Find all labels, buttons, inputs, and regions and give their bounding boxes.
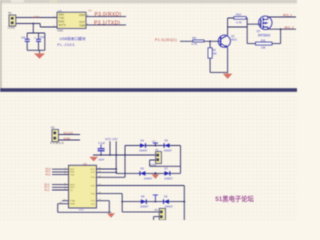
wire emitter (227, 48, 229, 73)
connector P2 (50, 126, 64, 146)
svg-text:CON2: CON2 (8, 26, 16, 30)
svg-text:XTAL: XTAL (70, 200, 76, 203)
wire mcu p14 (97, 194, 123, 212)
wire U1 right RXD (86, 24, 126, 26)
wire capacitor branch (27, 24, 45, 54)
resistor R9 (208, 48, 217, 58)
svg-text:1N4007: 1N4007 (144, 178, 153, 181)
wire mcu p13 drop (97, 201, 110, 213)
wire bridge1 conn pin2 (150, 160, 181, 166)
wire reset rail (93, 154, 156, 156)
svg-text:GND: GND (57, 28, 63, 32)
svg-text:P3.1(TXD): P3.1(TXD) (94, 21, 120, 27)
pin numbers U1 (54, 15, 90, 27)
svg-text:TXD: TXD (70, 174, 75, 176)
connector P4 (155, 208, 166, 220)
wire U1 right TXD (86, 16, 126, 18)
wire bridge2 conn pin2 (154, 217, 160, 220)
svg-text:1N4007: 1N4007 (164, 178, 173, 181)
svg-text:U2: U2 (83, 162, 87, 166)
wire mcu left group A (52, 169, 69, 174)
svg-text:INT1: INT1 (70, 187, 76, 189)
svg-text:D6: D6 (141, 167, 145, 171)
wire bridge1 right rail (180, 146, 182, 174)
power +12V symbol (152, 141, 158, 146)
wire mcu p16 (97, 176, 126, 178)
svg-text:PL-2303: PL-2303 (57, 43, 75, 47)
svg-text:12V: 12V (152, 141, 156, 143)
connector P3 (150, 149, 162, 167)
junction dots bridge1 (154, 145, 156, 175)
wire label riser (115, 141, 117, 173)
svg-text:+5V: +5V (88, 10, 93, 13)
wire drain out (268, 16, 296, 18)
junction source node (280, 28, 282, 30)
wire vcc stub (109, 141, 111, 155)
wire collector (228, 18, 261, 44)
junction base (209, 40, 211, 42)
capacitor C3 (98, 145, 105, 162)
wire source out (268, 28, 296, 30)
svg-text:GND: GND (64, 136, 72, 140)
wire J1 pin1 to U1 (16, 17, 57, 19)
svg-text:4.7K: 4.7K (236, 20, 242, 24)
svg-text:P1.0(JDQ1): P1.0(JDQ1) (155, 38, 177, 42)
svg-text:VCC: VCC (90, 169, 95, 171)
svg-text:10K: 10K (212, 53, 217, 56)
svg-text:0.1uF: 0.1uF (98, 141, 105, 145)
svg-text:VCC 12V: VCC 12V (105, 137, 118, 141)
transistor Q2 (218, 34, 238, 48)
resistor R11 (256, 38, 273, 49)
wire mcu p15 (97, 186, 185, 221)
junction dots reset rail (100, 154, 126, 173)
junction J1 pin2 net (32, 23, 34, 25)
window left band (0, 0, 2, 91)
svg-text:10uF: 10uF (98, 158, 104, 162)
svg-text:R11: R11 (261, 38, 266, 42)
svg-text:AVTS: AVTS (59, 23, 66, 27)
svg-text:D5: D5 (165, 139, 169, 143)
svg-text:DC12V: DC12V (64, 131, 74, 135)
wire base divider (210, 41, 228, 72)
svg-text:P1.2: P1.2 (45, 189, 51, 192)
svg-text:1N4007: 1N4007 (140, 206, 149, 209)
capacitor C2 (34, 36, 46, 42)
wire P2 pin1 (59, 134, 81, 136)
wire mcu vcc (97, 168, 117, 170)
pin numbers U2 (60, 168, 102, 205)
diode D5 (164, 139, 173, 153)
svg-text:P3.0(RXD): P3.0(RXD) (95, 12, 122, 18)
wire bridge1 bottom (116, 172, 180, 174)
power +12V symbol (153, 195, 158, 202)
bus line (0, 88, 297, 92)
svg-text:1N4007: 1N4007 (164, 150, 173, 153)
resistor R10 (234, 13, 246, 25)
ground (223, 74, 233, 79)
svg-text:D8: D8 (141, 195, 145, 199)
wire mcu xtal (62, 200, 69, 202)
svg-text:INT0: INT0 (70, 184, 76, 186)
junction dots bridge2 (121, 201, 185, 203)
wire bridge1 top (125, 146, 181, 178)
ground (34, 53, 45, 58)
svg-text:JDQ_1: JDQ_1 (283, 13, 293, 17)
IC U2 MCU (69, 162, 97, 212)
svg-text:51黑电子论坛: 51黑电子论坛 (215, 194, 254, 203)
svg-text:POWER: POWER (50, 141, 64, 145)
wire bridge2 conn pin1 (122, 211, 159, 213)
svg-text:VNB: VNB (79, 23, 85, 27)
svg-text:9013: 9013 (231, 37, 237, 41)
svg-text:IRF9540: IRF9540 (258, 33, 270, 37)
svg-text:2051: 2051 (79, 209, 85, 211)
ground bridge1 (152, 174, 160, 179)
svg-text:GND: GND (70, 204, 75, 206)
svg-text:D9: D9 (164, 195, 168, 199)
wire gate pulldown loop (247, 29, 280, 43)
ground (89, 157, 98, 162)
wire mcu gnd (58, 204, 111, 213)
svg-text:JDQ_2: JDQ_2 (284, 25, 294, 29)
svg-text:USB转串口模块: USB转串口模块 (60, 36, 86, 41)
svg-text:1N4007: 1N4007 (139, 150, 148, 153)
wire bridge2 top (122, 201, 184, 203)
svg-text:10K: 10K (261, 46, 266, 50)
svg-text:4.7K: 4.7K (191, 42, 197, 46)
svg-text:R10: R10 (236, 13, 242, 17)
IC U1 (57, 9, 86, 33)
mosfet Q3 (257, 16, 272, 37)
window top band (0, 0, 297, 4)
wire J1 pin2 net (16, 24, 57, 28)
ground mcu (107, 213, 115, 218)
resistor R8 (191, 36, 204, 46)
svg-text:P1: P1 (8, 11, 12, 15)
svg-text:P3.2: P3.2 (46, 173, 52, 176)
svg-text:10uF: 10uF (40, 36, 46, 39)
diode D6 (140, 167, 153, 181)
svg-text:P2: P2 (51, 126, 55, 130)
svg-text:Q2: Q2 (231, 34, 235, 38)
wire P2 pin2 (59, 139, 81, 141)
svg-text:CON2: CON2 (150, 164, 157, 167)
connector P1 (8, 11, 16, 30)
diode D4 (139, 139, 148, 153)
wire mcu p17 (97, 171, 117, 173)
svg-text:D7: D7 (165, 167, 169, 171)
svg-text:RXD: RXD (70, 172, 75, 174)
diode D7 (164, 167, 173, 181)
svg-text:R8: R8 (192, 36, 196, 40)
capacitor C1 (21, 36, 30, 42)
diode D9 (164, 195, 174, 209)
svg-text:D4: D4 (141, 139, 145, 143)
svg-text:VDM: VDM (79, 13, 86, 17)
wire mcu left group B (52, 185, 69, 190)
diode D8 (140, 195, 149, 209)
svg-text:104: 104 (21, 36, 26, 40)
wire base input (180, 40, 218, 42)
svg-text:+12V: +12V (32, 15, 39, 19)
svg-text:+: + (34, 36, 36, 40)
svg-text:RST: RST (70, 169, 75, 171)
